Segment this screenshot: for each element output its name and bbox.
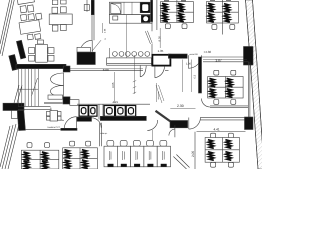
bar stools bbox=[113, 52, 118, 57]
door bbox=[187, 55, 189, 68]
svg-text:8.88: 8.88 bbox=[103, 68, 109, 72]
thick black wall left bbox=[16, 64, 66, 68]
stove black bbox=[140, 2, 150, 12]
door leaf+arc into room bbox=[91, 40, 93, 52]
svg-text:1.30: 1.30 bbox=[186, 62, 192, 65]
cluster B2 bbox=[70, 141, 75, 146]
left black wall column bbox=[17, 111, 25, 131]
svg-text:8.20: 8.20 bbox=[158, 36, 162, 42]
fridge with door arc bbox=[111, 3, 121, 13]
door to tavolino room bbox=[76, 117, 78, 129]
corner pier black top-left room bbox=[16, 40, 25, 59]
svg-text:1.35: 1.35 bbox=[158, 49, 164, 53]
left wall double line mid bbox=[14, 85, 22, 103]
chairs table D upper row bbox=[52, 0, 58, 5]
door swing marks bbox=[145, 31, 150, 44]
right pier black lower bbox=[245, 117, 254, 130]
kitchen counter top row bbox=[109, 2, 152, 14]
left outer wall band bottom bbox=[0, 124, 19, 169]
thin double wall continues bbox=[66, 68, 143, 70]
door right of black wall bbox=[147, 120, 157, 130]
right outer hatched wall band bbox=[246, 0, 265, 169]
table D bbox=[49, 14, 72, 25]
svg-text:spessore: spessore bbox=[157, 90, 160, 99]
door left under counter bbox=[139, 66, 141, 77]
table E room: chair top bbox=[38, 40, 44, 44]
sink black bbox=[141, 15, 150, 22]
wall to right piers bbox=[200, 116, 244, 118]
left wall of right room bbox=[199, 57, 202, 93]
black wall under first toilets bbox=[77, 117, 92, 121]
small cabinet bbox=[12, 111, 18, 119]
table B bbox=[19, 20, 41, 34]
table A (cut at top edge) bbox=[17, 0, 35, 5]
bar counter bbox=[107, 58, 152, 65]
door right under counter bbox=[154, 66, 156, 78]
svg-text:4.21: 4.21 bbox=[113, 100, 119, 104]
svg-text:3.05: 3.05 bbox=[111, 82, 115, 88]
chairs table A bottom bbox=[20, 6, 27, 13]
table E bbox=[36, 44, 48, 62]
left black wall bar bbox=[3, 103, 24, 110]
table E chairs right bbox=[48, 48, 54, 54]
diagonal interior wall bbox=[176, 155, 189, 168]
door near columns bbox=[174, 125, 176, 137]
black wall stub bbox=[91, 0, 94, 15]
door under stairs bbox=[51, 108, 64, 121]
svg-text:2.05: 2.05 bbox=[191, 151, 195, 157]
kitchen lower row bbox=[109, 15, 152, 24]
door of right room bbox=[202, 99, 211, 108]
svg-text:0.3: 0.3 bbox=[194, 74, 197, 78]
svg-text:2.30: 2.30 bbox=[177, 104, 184, 108]
svg-text:tavolino PVT: tavolino PVT bbox=[48, 126, 61, 129]
door jamb bbox=[84, 5, 89, 11]
corridor door to bottom-right room bbox=[188, 118, 190, 130]
wall under stairs bbox=[18, 105, 51, 107]
cluster C1C2 bbox=[160, 2, 193, 23]
svg-text:sala op.: sala op. bbox=[100, 132, 107, 135]
svg-text:4.41: 4.41 bbox=[214, 128, 220, 132]
cluster B1 bbox=[27, 143, 32, 148]
chairs table B top bbox=[20, 14, 27, 21]
black wall under toilets bbox=[100, 116, 146, 120]
columns room left wall bbox=[99, 123, 101, 147]
diagonal wall bbox=[156, 111, 171, 122]
left wall pier black bbox=[9, 54, 18, 70]
cluster C3C4 bbox=[207, 1, 239, 23]
thick wall bbox=[168, 54, 187, 58]
svg-text:3.87: 3.87 bbox=[216, 58, 222, 62]
kitchen right wall black bbox=[151, 0, 153, 22]
stair double-swing door bbox=[63, 73, 65, 97]
chair table B top third bbox=[36, 13, 42, 20]
right pier black upper bbox=[244, 47, 254, 66]
counter corner box black frame bbox=[152, 55, 170, 66]
chairs table B bottom bbox=[27, 34, 33, 40]
door left of columns room bbox=[91, 118, 101, 128]
black wall block bbox=[170, 121, 188, 128]
black end of wall bbox=[63, 66, 70, 72]
left outer wall band top bbox=[0, 0, 14, 56]
room outline bbox=[203, 61, 249, 63]
black wall block under door bbox=[77, 52, 95, 64]
svg-text:porta REI: porta REI bbox=[190, 53, 199, 56]
wall double below bbox=[91, 15, 93, 41]
svg-text:+4.36: +4.36 bbox=[204, 50, 212, 54]
chairs table D bottom bbox=[52, 25, 58, 31]
table E chairs left bbox=[29, 48, 35, 54]
white cabinet above black block bbox=[77, 47, 90, 52]
